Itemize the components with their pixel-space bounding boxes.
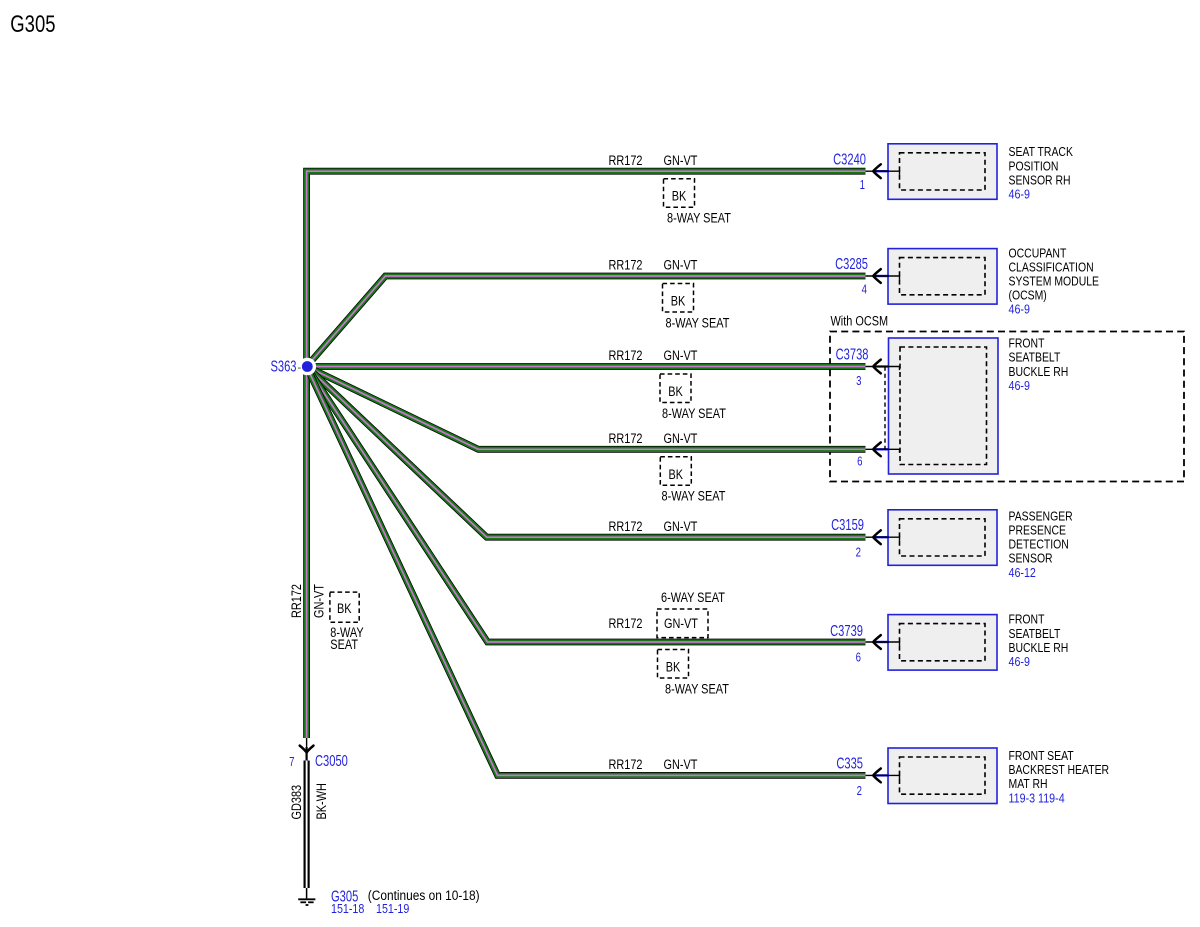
svg-text:151-19: 151-19	[376, 902, 409, 916]
svg-text:C3739: C3739	[830, 622, 863, 639]
svg-text:G305: G305	[10, 11, 55, 38]
svg-text:SEAT TRACK: SEAT TRACK	[1009, 146, 1074, 159]
svg-text:4: 4	[862, 283, 867, 297]
svg-text:C3240: C3240	[833, 151, 866, 168]
svg-text:46-9: 46-9	[1009, 655, 1030, 669]
svg-text:GN-VT: GN-VT	[311, 584, 327, 618]
svg-text:2: 2	[857, 785, 862, 799]
svg-text:FRONT: FRONT	[1009, 338, 1045, 351]
svg-text:GN-VT: GN-VT	[664, 257, 698, 273]
svg-text:6: 6	[857, 455, 862, 469]
svg-text:BK: BK	[666, 659, 681, 675]
svg-text:BUCKLE RH: BUCKLE RH	[1009, 366, 1069, 379]
svg-text:GN-VT: GN-VT	[664, 519, 698, 535]
svg-text:46-9: 46-9	[1009, 188, 1030, 202]
svg-text:8-WAY SEAT: 8-WAY SEAT	[665, 681, 729, 697]
svg-text:BUCKLE RH: BUCKLE RH	[1009, 642, 1069, 655]
svg-text:CLASSIFICATION: CLASSIFICATION	[1009, 262, 1094, 275]
svg-text:GN-VT: GN-VT	[664, 616, 698, 632]
svg-text:C3738: C3738	[836, 346, 869, 363]
svg-text:With OCSM: With OCSM	[831, 313, 889, 329]
svg-text:BK: BK	[337, 601, 352, 617]
svg-text:8-WAY SEAT: 8-WAY SEAT	[662, 406, 726, 422]
svg-text:GN-VT: GN-VT	[664, 757, 698, 773]
svg-text:46-9: 46-9	[1009, 379, 1030, 393]
svg-text:8-WAY SEAT: 8-WAY SEAT	[667, 210, 731, 226]
svg-text:8-WAY SEAT: 8-WAY SEAT	[662, 488, 726, 504]
svg-text:BK: BK	[669, 467, 684, 483]
svg-text:RR172: RR172	[609, 153, 643, 169]
svg-text:SEATBELT: SEATBELT	[1009, 628, 1061, 641]
svg-text:(OCSM): (OCSM)	[1009, 290, 1047, 303]
svg-text:BK: BK	[671, 293, 686, 309]
svg-text:RR172: RR172	[609, 431, 643, 447]
svg-text:8-WAY SEAT: 8-WAY SEAT	[666, 315, 730, 331]
svg-text:SENSOR RH: SENSOR RH	[1009, 175, 1071, 188]
svg-text:7: 7	[289, 756, 294, 770]
svg-text:POSITION: POSITION	[1009, 161, 1059, 174]
svg-text:SEATBELT: SEATBELT	[1009, 352, 1061, 365]
svg-text:SYSTEM MODULE: SYSTEM MODULE	[1009, 276, 1100, 289]
svg-text:C3050: C3050	[315, 752, 348, 769]
svg-text:OCCUPANT: OCCUPANT	[1009, 248, 1067, 261]
svg-text:119-3 119-4: 119-3 119-4	[1009, 792, 1066, 806]
svg-text:FRONT SEAT: FRONT SEAT	[1009, 750, 1074, 763]
svg-text:RR172: RR172	[609, 519, 643, 535]
svg-text:C3285: C3285	[835, 255, 868, 272]
svg-text:FRONT: FRONT	[1009, 614, 1045, 627]
svg-text:DETECTION: DETECTION	[1009, 539, 1069, 552]
svg-text:6: 6	[856, 652, 861, 666]
svg-text:PASSENGER: PASSENGER	[1009, 511, 1073, 524]
svg-text:GN-VT: GN-VT	[664, 431, 698, 447]
svg-text:SENSOR: SENSOR	[1009, 553, 1053, 566]
svg-text:1: 1	[860, 179, 865, 193]
svg-text:RR172: RR172	[609, 757, 643, 773]
svg-text:(Continues on 10-18): (Continues on 10-18)	[368, 887, 480, 903]
svg-text:SEAT: SEAT	[330, 637, 358, 653]
svg-text:C3159: C3159	[831, 516, 864, 533]
svg-text:BACKREST HEATER: BACKREST HEATER	[1009, 764, 1110, 777]
svg-text:46-9: 46-9	[1009, 303, 1030, 317]
svg-text:BK-WH: BK-WH	[314, 783, 330, 819]
svg-text:BK: BK	[668, 384, 683, 400]
svg-text:C335: C335	[836, 755, 863, 772]
svg-text:RR172: RR172	[609, 616, 643, 632]
svg-text:RR172: RR172	[289, 584, 305, 618]
svg-text:RR172: RR172	[609, 257, 643, 273]
svg-text:GN-VT: GN-VT	[664, 153, 698, 169]
svg-text:151-18: 151-18	[331, 902, 364, 916]
svg-text:3: 3	[856, 375, 861, 389]
svg-text:6-WAY SEAT: 6-WAY SEAT	[661, 590, 725, 606]
svg-text:RR172: RR172	[609, 348, 643, 364]
svg-text:BK: BK	[672, 188, 687, 204]
svg-text:GD383: GD383	[289, 785, 305, 820]
svg-text:GN-VT: GN-VT	[664, 348, 698, 364]
svg-text:46-12: 46-12	[1009, 566, 1036, 580]
svg-text:MAT RH: MAT RH	[1009, 778, 1048, 791]
svg-text:2: 2	[856, 547, 861, 561]
svg-text:S363: S363	[270, 358, 296, 375]
svg-text:PRESENCE: PRESENCE	[1009, 525, 1067, 538]
